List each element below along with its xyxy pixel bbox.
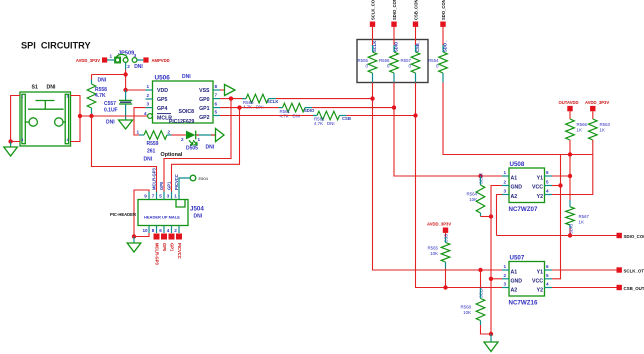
svg-text:1K: 1K: [577, 128, 582, 133]
U508 pin 4 stub: [545, 189, 553, 195]
svg-text:Y2: Y2: [537, 194, 543, 200]
wire U508 VCC: [552, 185, 561, 187]
svg-text:5: 5: [546, 273, 549, 278]
svg-text:7: 7: [215, 93, 218, 98]
svg-text:E504: E504: [199, 176, 209, 181]
U508 pin 3 stub: [502, 189, 509, 195]
pad SDO_CON: [440, 0, 446, 27]
wire U507 Y1 to pad: [552, 269, 617, 271]
svg-text:10: 10: [143, 228, 149, 233]
wire AVDD chain down to U508 Y2: [552, 140, 593, 195]
svg-text:DNI: DNI: [144, 157, 153, 163]
svg-text:DNI: DNI: [182, 74, 191, 80]
pad PICVCC (J504 bottom): [176, 234, 182, 259]
node junction U508 VCC (560.5,185.5): [558, 183, 562, 187]
svg-text:GND: GND: [511, 185, 523, 191]
svg-text:3: 3: [21, 138, 23, 142]
S1 pin numbers: [21, 95, 68, 143]
node junction U508 A1 (480.5,176): [478, 174, 482, 178]
J504 bottom pin 2: [174, 226, 179, 234]
svg-text:GP0: GP0: [199, 97, 209, 103]
J504 bottom pin 4: [167, 226, 172, 234]
node junction (394,107.6): [392, 105, 396, 109]
ground at S1: [4, 142, 18, 157]
node junction GP1 (239.5,107.6): [237, 105, 241, 109]
svg-text:2: 2: [504, 273, 507, 278]
svg-text:2: 2: [181, 137, 184, 142]
svg-text:Y1: Y1: [537, 269, 543, 275]
svg-text:2: 2: [67, 95, 69, 99]
wire U507 Y2 to pad: [552, 287, 617, 289]
node junction (415.5,115.5): [413, 113, 417, 117]
pad SCLK_OTP: [617, 267, 644, 273]
svg-text:6: 6: [215, 102, 218, 107]
resistor R559 261 DNI: [137, 130, 172, 163]
svg-text:GP4: GP4: [157, 106, 167, 112]
node junction at (134,236.5): [132, 234, 136, 238]
svg-text:SDIO_CON: SDIO_CON: [624, 234, 644, 239]
svg-text:NC7WZ07: NC7WZ07: [509, 206, 538, 213]
diode D505 LED: [181, 131, 215, 152]
svg-text:R563: R563: [600, 122, 611, 127]
svg-text:4.7K: 4.7K: [243, 104, 252, 109]
ground at U507: [484, 334, 498, 352]
node junction (570,154.5): [568, 152, 572, 156]
wire S1 left loop: [11, 96, 20, 142]
op-amp U506 PIC12F629 SOIC8: [153, 74, 214, 125]
svg-text:SCLK: SCLK: [267, 99, 278, 104]
pin 4 MCLR bubble: [144, 111, 152, 119]
svg-text:R556: R556: [379, 58, 390, 63]
svg-text:10K: 10K: [430, 251, 438, 256]
svg-text:U508: U508: [510, 161, 525, 168]
svg-text:R567: R567: [579, 214, 590, 219]
svg-text:4: 4: [67, 138, 69, 142]
resistor R566 1K (OUTAVDD pullup): [566, 111, 588, 140]
pad CSB_CON: [413, 0, 419, 27]
ground under C557: [119, 120, 133, 129]
wire GP1 down to J504 pin 3: [172, 108, 240, 192]
svg-text:1: 1: [21, 95, 23, 99]
U507 pin 6 stub: [545, 264, 553, 270]
U507 pin 3 stub: [502, 282, 509, 288]
svg-text:A1: A1: [511, 175, 518, 181]
svg-text:CSB_OUT: CSB_OUT: [624, 286, 644, 291]
resistor R567 1K (series to SDIO_CON): [566, 176, 590, 236]
wire GP2 rail: [220, 115, 317, 117]
svg-text:A2: A2: [511, 287, 518, 293]
svg-text:9: 9: [144, 194, 147, 199]
svg-text:1: 1: [198, 137, 201, 142]
pin 6 GP1 stub: [213, 102, 220, 108]
svg-text:DNI: DNI: [47, 85, 56, 91]
svg-text:1: 1: [504, 264, 507, 269]
svg-text:SDIO: SDIO: [569, 223, 574, 234]
wire GP0 down to J504 pin 5: [164, 99, 231, 192]
svg-text:R565: R565: [428, 246, 439, 251]
resistor R563 1K (AVDD pullup): [589, 111, 611, 140]
svg-text:R557: R557: [401, 58, 412, 63]
U508 pin 6 stub: [545, 170, 553, 176]
svg-text:1: 1: [504, 170, 507, 175]
node junction (445.5,287.5): [443, 285, 447, 289]
svg-text:PICVCC: PICVCC: [177, 243, 182, 259]
resistor R568 10K (U507 A1 pulldown): [461, 270, 485, 325]
wire GP4 to R559: [134, 108, 146, 135]
svg-text:GP1: GP1: [167, 181, 172, 190]
wire GP0 rail cont: [276, 98, 373, 100]
pad MCLR-GP3 (J504 bottom): [154, 234, 160, 266]
wire SDIO column down to U508 A1: [394, 83, 502, 177]
svg-text:VDD: VDD: [157, 88, 168, 94]
svg-text:10K: 10K: [469, 197, 477, 202]
svg-text:A1: A1: [511, 269, 518, 275]
svg-text:R559: R559: [147, 141, 159, 147]
wire SDO column right to AVDD resistor: [443, 83, 593, 155]
node E504 circle at J504 pin1: [179, 175, 209, 191]
wire U508 GND: [491, 186, 502, 217]
resistor R554 0 (pull-up SDO_CON): [428, 27, 448, 83]
svg-text:8: 8: [152, 228, 155, 233]
port triangle at D505: [216, 129, 225, 142]
wire U507 VCC: [552, 278, 556, 280]
pin 3 GP4 stub: [146, 102, 153, 108]
svg-text:Y1: Y1: [537, 175, 543, 181]
svg-text:3: 3: [504, 189, 507, 194]
svg-text:7: 7: [152, 194, 155, 199]
svg-text:GND: GND: [511, 278, 523, 284]
U508 pin 2 stub: [502, 180, 509, 186]
wire OUTAVDD chain down: [569, 140, 571, 176]
op-amp U508 NC7WZ07: [509, 161, 545, 213]
svg-text:1: 1: [137, 130, 140, 135]
pad AVDD_3P3V (JP509 pin 1): [76, 57, 115, 63]
svg-text:AVDD_3P3V: AVDD_3P3V: [76, 58, 100, 63]
wire U508 Y1: [552, 175, 570, 177]
svg-text:2: 2: [174, 228, 177, 233]
port triangle at VSS: [225, 85, 236, 96]
svg-text:6: 6: [546, 264, 549, 269]
svg-text:MCLR-GP3: MCLR-GP3: [152, 167, 157, 190]
pin 7 GP0 stub: [213, 93, 220, 99]
svg-text:3: 3: [504, 282, 507, 287]
pad GP0 (J504 bottom): [161, 234, 167, 253]
svg-text:CSB_CON: CSB_CON: [413, 0, 418, 20]
svg-text:4.7K: 4.7K: [95, 93, 106, 99]
J504 bottom pin 6: [159, 226, 164, 234]
wire D505 to port: [196, 134, 216, 136]
J504 top pin 1: [174, 192, 179, 200]
svg-text:GP1: GP1: [199, 106, 209, 112]
U507 pin 4 stub: [545, 282, 553, 288]
U508 pin 5 stub: [545, 180, 553, 186]
wire J504 pin 9 / pin 10 ground link: [134, 190, 149, 237]
svg-text:SDIO_CON: SDIO_CON: [392, 0, 397, 20]
wire SDIO_CON line: [497, 235, 617, 237]
node junction VDD (125.5,90): [123, 88, 127, 92]
wire S1 right loop: [71, 96, 81, 142]
pad AVDD_3P3V (mid): [427, 221, 451, 233]
switch S1 (pushbutton, DNI): [20, 85, 71, 147]
U507 pin 1 stub: [502, 264, 509, 270]
resistor R556 0 (pull-up SDIO_CON): [379, 27, 399, 83]
wire R564 to GND chain: [481, 216, 492, 218]
wire GP0 rail: [220, 98, 246, 100]
svg-text:SDIO: SDIO: [304, 108, 315, 113]
svg-text:R554: R554: [428, 58, 439, 63]
svg-text:4: 4: [167, 228, 170, 233]
pad GP1 (J504 bottom): [169, 234, 175, 253]
J504 top pin 7: [152, 192, 157, 200]
svg-text:DNI: DNI: [106, 120, 115, 126]
resistor R560 4.7K DNI (series GP0): [242, 94, 278, 109]
svg-text:CSB: CSB: [342, 116, 351, 121]
svg-text:MCLR-GP3: MCLR-GP3: [155, 243, 160, 266]
svg-text:10K: 10K: [463, 310, 471, 315]
wire VDD to U506 pin 1: [126, 89, 146, 91]
wire GP1 rail cont: [312, 107, 394, 109]
node junction (570,235.5): [568, 233, 572, 237]
svg-text:GP0: GP0: [159, 181, 164, 190]
svg-text:VSS: VSS: [199, 88, 210, 94]
J504 bottom pin 8: [152, 226, 157, 234]
svg-text:5: 5: [159, 194, 162, 199]
pin 2 GP5 stub: [146, 93, 153, 99]
svg-text:OUTAVDD: OUTAVDD: [559, 100, 579, 105]
svg-text:A2: A2: [511, 194, 518, 200]
node junction GP0 (231,98.6): [229, 96, 233, 100]
svg-text:5: 5: [215, 110, 218, 115]
wire MCLR net down to J504 pin 7: [92, 116, 157, 192]
node junction (570,176): [568, 174, 572, 178]
svg-text:AVDD_3P3V: AVDD_3P3V: [585, 100, 609, 105]
svg-text:1: 1: [147, 84, 150, 89]
svg-text:3: 3: [147, 102, 150, 107]
svg-text:Y2: Y2: [537, 287, 543, 293]
svg-text:DNI: DNI: [327, 121, 335, 126]
capacitor C557 0.1UF: [104, 90, 132, 126]
svg-text:HEADER UP MALE: HEADER UP MALE: [144, 215, 180, 220]
U507 pin 2 stub: [502, 273, 509, 279]
svg-text:VCC: VCC: [532, 185, 543, 191]
wire R568 to ground node: [481, 325, 492, 334]
svg-text:Optional: Optional: [161, 152, 183, 158]
svg-text:2: 2: [147, 93, 150, 98]
svg-text:2: 2: [504, 180, 507, 185]
pad OUTAVDD: [559, 100, 579, 111]
svg-text:DNI: DNI: [194, 214, 203, 220]
svg-text:SOIC8: SOIC8: [179, 109, 195, 115]
svg-text:1K: 1K: [579, 220, 584, 225]
svg-text:J504: J504: [190, 206, 204, 213]
connector J504 HEADER UP MALE DNI: [110, 200, 204, 226]
resistor R564 10K (U508 A1 pulldown): [467, 173, 485, 217]
svg-text:C557: C557: [104, 101, 116, 107]
wire VSS to port: [220, 89, 225, 91]
op-amp U507 NC7WZ16: [509, 255, 545, 307]
wire MCLR net horizontal: [80, 115, 148, 117]
wire R565 down to A2 line: [445, 269, 447, 288]
pin 5 GP2 stub: [213, 110, 220, 116]
jumper JP509: [110, 51, 144, 71]
resistor R558 4.7K DNI: [87, 75, 107, 117]
svg-text:5: 5: [546, 180, 549, 185]
svg-text:6: 6: [546, 170, 549, 175]
svg-text:4.7K: 4.7K: [314, 121, 323, 126]
node junction at (125.5,74.5): [123, 72, 127, 76]
U507 pin 5 stub: [545, 273, 553, 279]
svg-text:DNI: DNI: [98, 78, 107, 84]
node junction (491,334): [489, 332, 493, 336]
resistor R565 10K (CSB pullup): [428, 233, 450, 269]
node junction at (80,116): [78, 114, 82, 118]
node junction (491,216.5): [489, 214, 493, 218]
svg-text:4: 4: [546, 189, 549, 194]
svg-text:2: 2: [127, 64, 130, 69]
wire U507 GND: [491, 278, 502, 280]
svg-text:SPI CIRCUITRY: SPI CIRCUITRY: [21, 41, 91, 51]
wire VCC chain from SDO line down to U507 VCC: [556, 155, 561, 279]
svg-text:4: 4: [144, 111, 147, 116]
svg-text:R568: R568: [461, 305, 472, 310]
svg-text:AMPVDD: AMPVDD: [152, 58, 170, 63]
wire GP2 rail cont: [347, 115, 416, 117]
svg-text:PIC12F629: PIC12F629: [169, 119, 195, 125]
svg-text:R566: R566: [577, 122, 588, 127]
wire SCLK column down to U507 A1: [373, 83, 503, 271]
wire GND chain down to U507: [490, 217, 492, 335]
wire GP1 rail: [220, 107, 283, 109]
wire JP509 pin2 down: [125, 63, 127, 91]
resistor R562 4.7K DNI (series GP2): [313, 111, 351, 126]
pad SDIO_CON: [617, 233, 644, 239]
svg-text:3: 3: [167, 194, 170, 199]
svg-text:SDO_CON: SDO_CON: [441, 0, 446, 20]
svg-text:DNI: DNI: [206, 145, 215, 151]
svg-text:1K: 1K: [600, 128, 605, 133]
node junction (372.5,98.6): [370, 96, 374, 100]
svg-text:DNI: DNI: [256, 104, 264, 109]
svg-text:2: 2: [168, 130, 171, 135]
svg-text:GP1: GP1: [170, 243, 175, 252]
pad SCLK_CON: [370, 0, 376, 27]
J504 bottom pin 10: [143, 226, 150, 234]
pad CSB_OUT: [617, 285, 644, 291]
U508 pin 1 stub: [502, 170, 509, 176]
svg-text:S1: S1: [32, 85, 38, 91]
svg-text:R555: R555: [358, 58, 369, 63]
box around pull-up resistors: [357, 40, 428, 83]
node junction U507 A1 (480.5,270): [478, 268, 482, 272]
svg-text:D505: D505: [186, 146, 198, 152]
J504 top pin 5: [159, 192, 164, 200]
pad SDIO_CON: [391, 0, 397, 27]
node junction at S1 ground: [8, 139, 12, 143]
svg-text:PIC-HEADER: PIC-HEADER: [110, 212, 136, 217]
resistor R561 4.7K DNI (series GP1): [279, 103, 315, 118]
svg-text:AVDD_3P3V: AVDD_3P3V: [427, 221, 451, 226]
ground at J504: [127, 237, 141, 253]
node junction at (91.5,116): [89, 114, 93, 118]
svg-text:GP5: GP5: [157, 97, 167, 103]
svg-text:SCLK_CON: SCLK_CON: [370, 0, 375, 20]
svg-text:8: 8: [215, 84, 218, 89]
J504 top pin 9: [144, 192, 149, 200]
svg-text:1: 1: [110, 54, 113, 59]
svg-text:3: 3: [134, 53, 137, 58]
svg-text:NC7WZ16: NC7WZ16: [509, 300, 538, 307]
svg-text:GP2: GP2: [199, 115, 209, 121]
J504 top pin 3: [167, 192, 172, 200]
svg-text:4: 4: [546, 282, 549, 287]
svg-text:VCC: VCC: [532, 278, 543, 284]
pin 1 VDD stub: [146, 84, 153, 90]
resistor R557 0 (pull-up CSB_CON): [401, 27, 421, 83]
svg-text:261: 261: [147, 149, 156, 155]
svg-text:0.1UF: 0.1UF: [104, 108, 118, 114]
svg-text:DNI: DNI: [134, 64, 143, 70]
svg-text:R564: R564: [467, 192, 478, 197]
wire R559 to D505: [172, 134, 186, 136]
pad AVDD_3P3V (right): [585, 100, 609, 111]
pin 8 VSS stub: [213, 84, 220, 90]
node junction U507 GND (491,278.8): [489, 277, 493, 281]
wire branch to R558: [92, 74, 126, 76]
wire CSB column down to U507 A2: [416, 83, 503, 288]
svg-text:6: 6: [159, 228, 162, 233]
svg-text:GP0: GP0: [162, 243, 167, 252]
pad AMPVDD (JP509 pin 3): [137, 57, 170, 63]
svg-text:PICVCC: PICVCC: [174, 174, 179, 190]
resistor R555 0 (pull-up SCLK_CON): [358, 27, 378, 83]
svg-text:1: 1: [174, 194, 177, 199]
svg-text:SCLK_OTP: SCLK_OTP: [624, 269, 644, 274]
svg-text:U507: U507: [510, 255, 525, 262]
wire U508 A2 loop from SDIO_CON line: [497, 195, 503, 236]
